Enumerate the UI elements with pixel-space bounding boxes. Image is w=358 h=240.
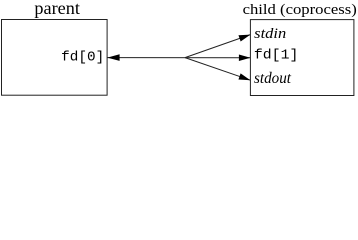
- arrowhead into parent fd[0]: [107, 54, 119, 61]
- svg-text:stdout: stdout: [254, 70, 292, 87]
- arrowhead into child stdout: [238, 73, 250, 80]
- svg-text:parent: parent: [34, 0, 80, 18]
- arrowhead into child fd[1]: [239, 54, 251, 61]
- wire: diagonal to stdin: [185, 35, 250, 58]
- wire: horizontal pipe line parent to child fd[1]: [107, 57, 250, 59]
- child coprocess box: [250, 20, 354, 96]
- wire: diagonal to stdout: [185, 58, 250, 81]
- svg-text:fd[1]: fd[1]: [254, 48, 299, 63]
- svg-text:fd[0]: fd[0]: [61, 50, 104, 65]
- svg-text:child (coprocess): child (coprocess): [243, 2, 357, 18]
- arrowhead into child stdin: [238, 35, 250, 42]
- svg-text:stdin: stdin: [254, 26, 286, 42]
- parent process box: [2, 20, 108, 96]
